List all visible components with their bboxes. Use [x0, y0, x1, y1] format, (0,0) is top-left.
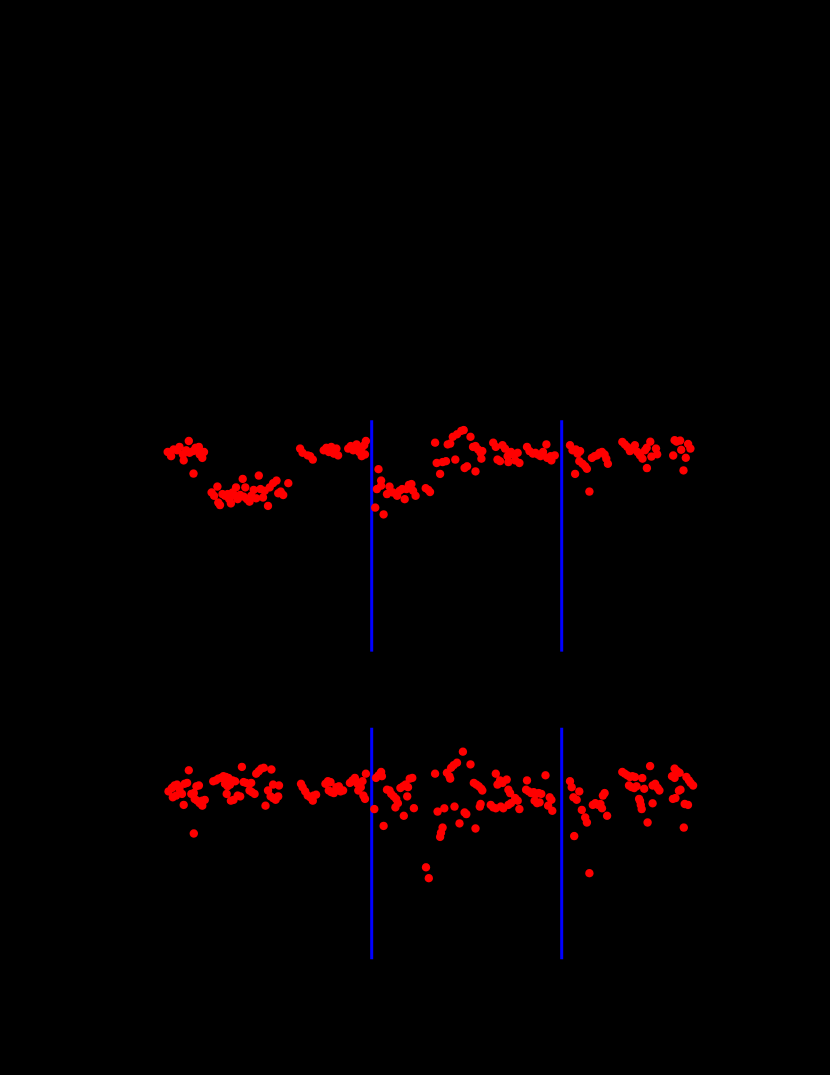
bottom panel scatter: left cluster (red points): [164, 763, 283, 838]
top panel transit-end marker line (blue, x=561.6): [560, 420, 563, 651]
top panel scatter: in-transit dip (red points): [371, 465, 434, 519]
bottom panel scatter: right band (red points): [566, 762, 698, 878]
top panel transit-start marker line (blue, x=371.6): [370, 420, 373, 651]
top panel scatter: left high cluster (red points): [164, 437, 209, 478]
top panel scatter: right band (red points): [566, 436, 695, 496]
top panel scatter: pre-ingress chain (red points): [296, 437, 370, 464]
bottom panel scatter: centre band (red points): [431, 748, 557, 842]
bottom panel scatter: centre-left band (red points): [297, 768, 433, 883]
bottom panel transit-end marker line (blue, x=561.6): [560, 728, 563, 960]
bottom panel transit-start marker line (blue, x=371.6): [370, 728, 373, 960]
top panel scatter: mid high band (red points): [431, 426, 559, 478]
top panel scatter: first dip cluster (red points): [207, 471, 292, 510]
